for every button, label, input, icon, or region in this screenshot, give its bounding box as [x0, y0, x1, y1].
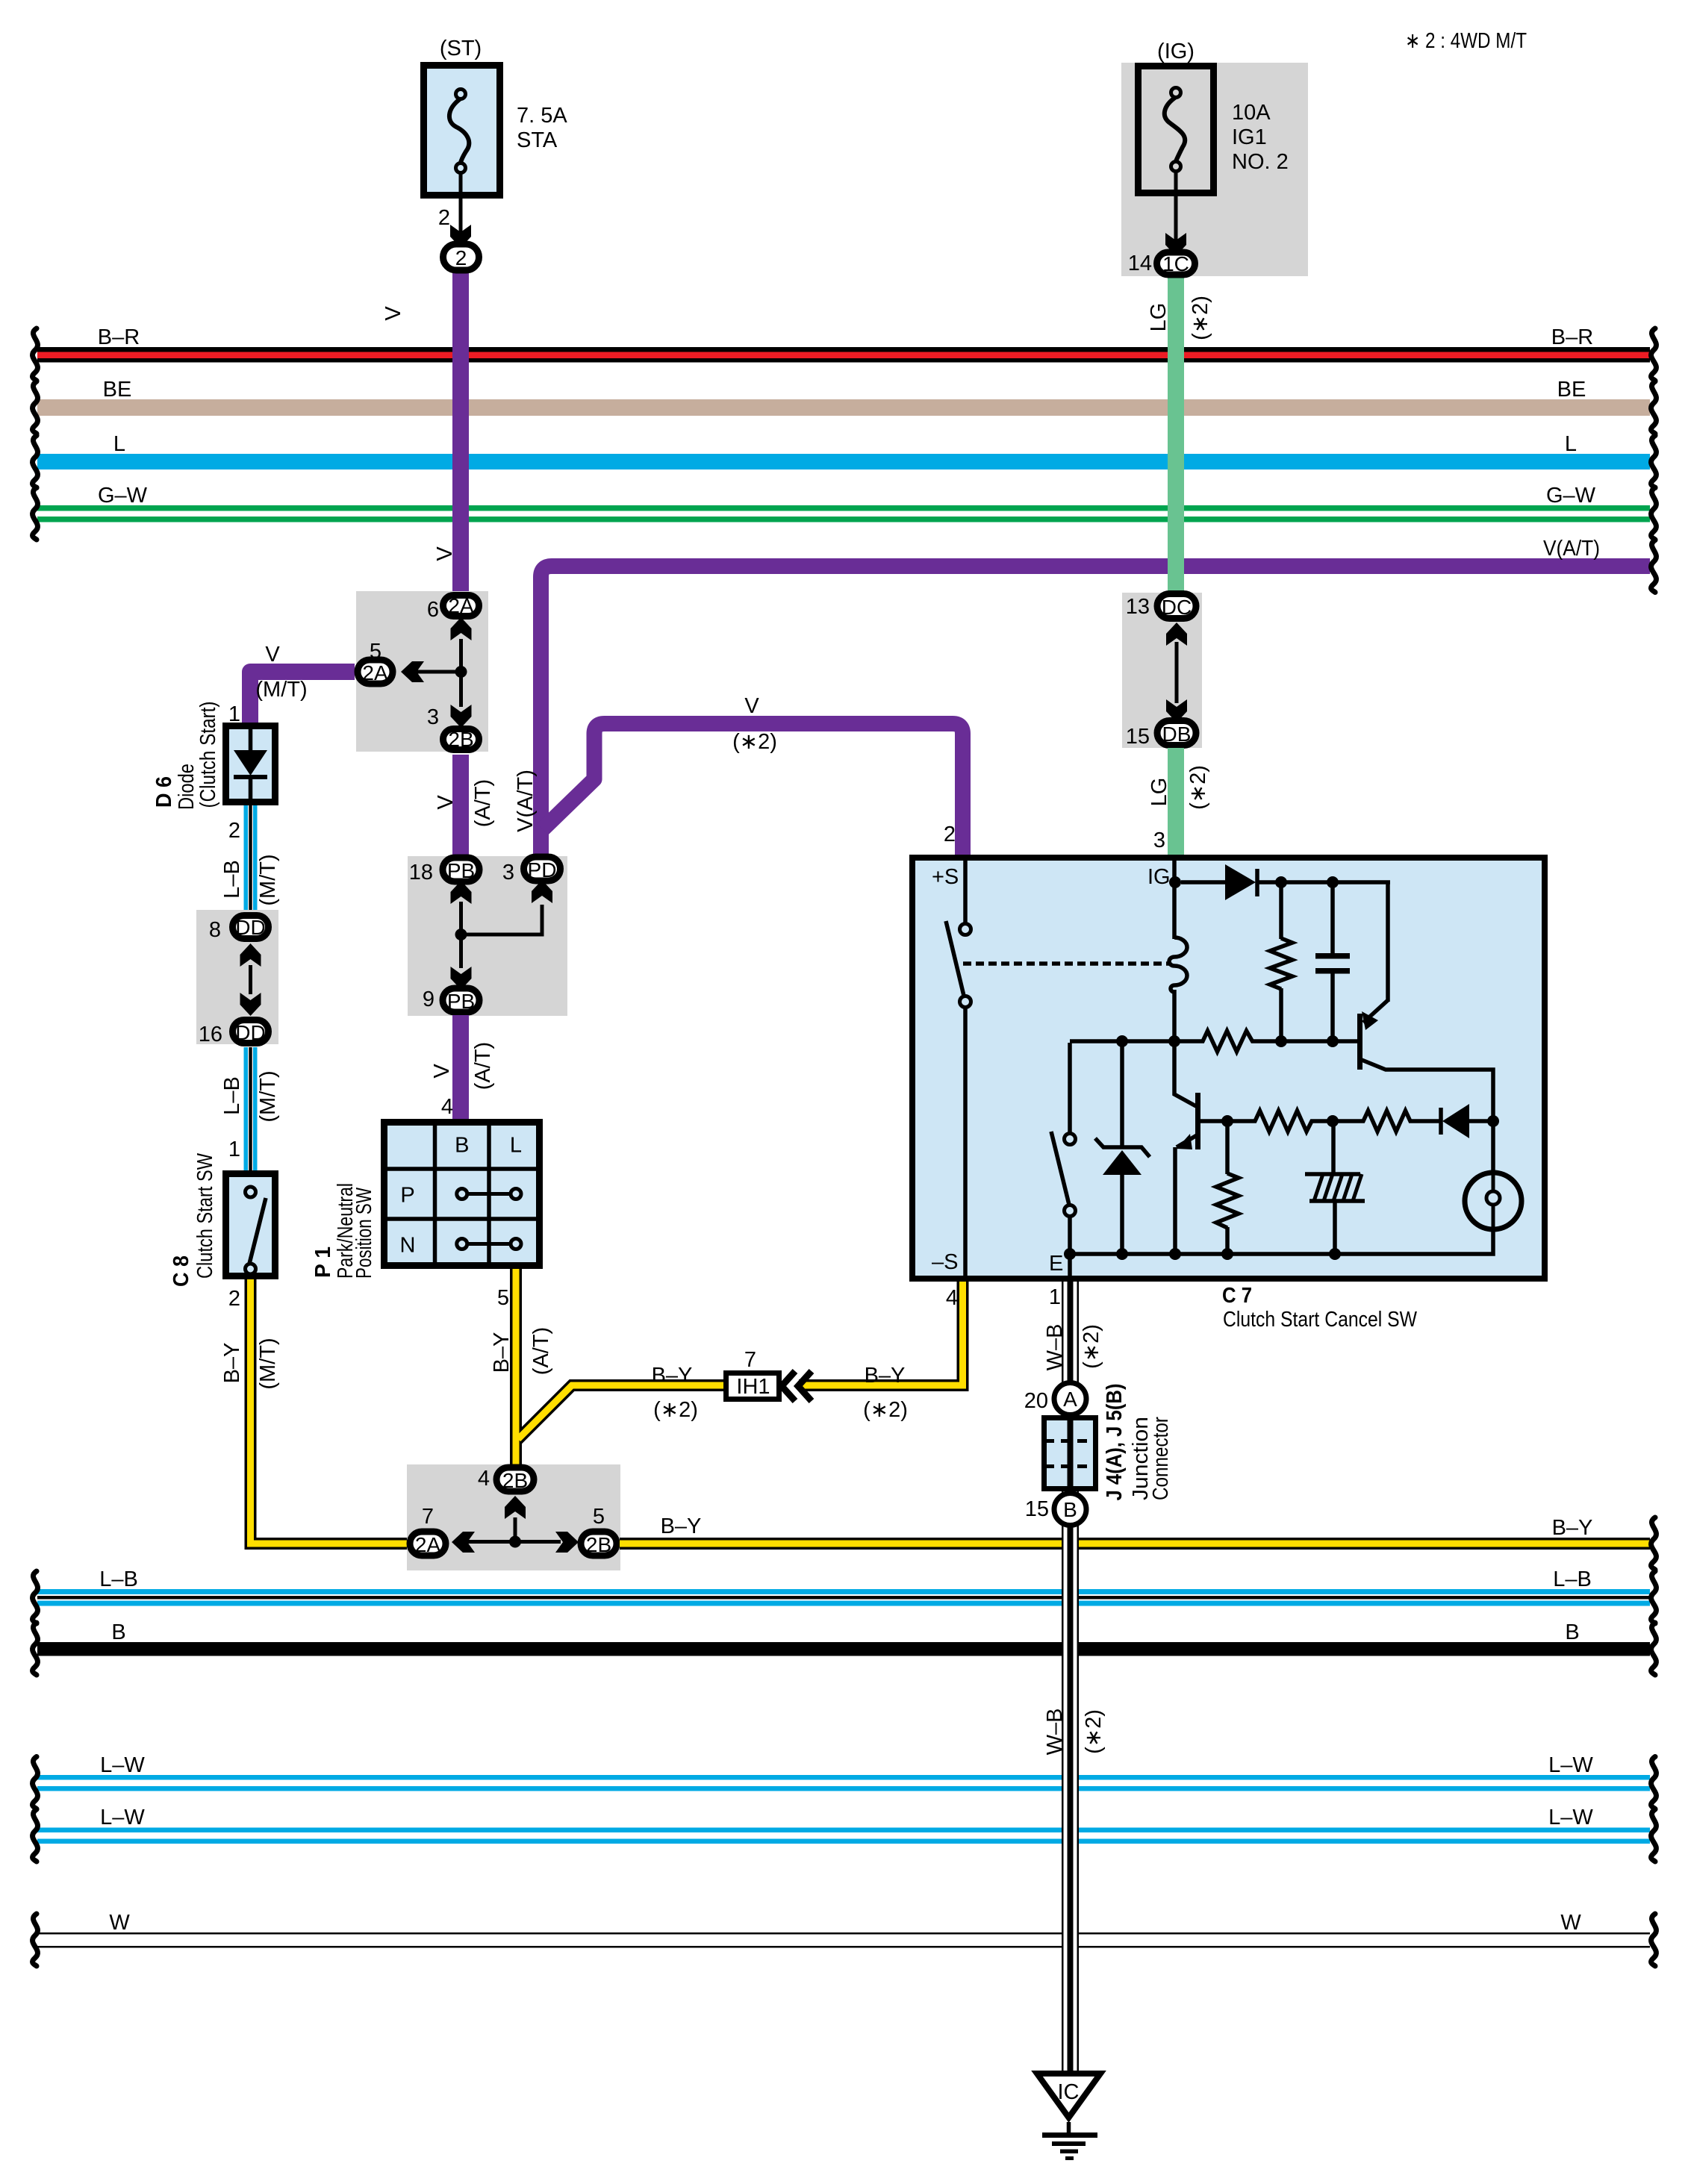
arrow up into 4 2B — [505, 1496, 526, 1519]
C7 heater element — [1305, 1121, 1365, 1255]
connector oval 18 PB — [409, 858, 479, 884]
svg-text:20: 20 — [1024, 1389, 1048, 1413]
svg-text:2: 2 — [228, 819, 240, 843]
arrow up into 6 2A — [451, 617, 472, 640]
svg-text:W: W — [109, 1911, 130, 1935]
svg-text:1: 1 — [228, 1138, 240, 1161]
bus BE — [33, 378, 1657, 434]
wire LG from IG fuse vertical — [1147, 276, 1212, 591]
C7 resistor R1 vertical — [1270, 882, 1292, 1043]
svg-text:4: 4 — [478, 1467, 490, 1491]
svg-text:4: 4 — [946, 1286, 958, 1310]
svg-text:DB: DB — [1162, 723, 1192, 746]
svg-text:NO. 2: NO. 2 — [1232, 150, 1289, 174]
svg-text:2B: 2B — [586, 1533, 611, 1556]
connector oval 3 2B — [427, 705, 479, 751]
park/neutral position switch P1 — [311, 1120, 541, 1279]
arrow down into 3 2B — [451, 705, 472, 728]
wire V between 2B and PB — [434, 755, 495, 856]
svg-text:16: 16 — [199, 1023, 222, 1046]
svg-text:2: 2 — [438, 206, 450, 230]
connector oval 8 DD — [209, 916, 269, 943]
C7 resistor R4 vertical — [1216, 1121, 1239, 1255]
C7 dashed link — [963, 961, 1170, 966]
svg-text:E: E — [1049, 1252, 1063, 1276]
bus L — [33, 432, 1657, 488]
junction line and dot bottom — [464, 1517, 561, 1548]
bus B-R — [33, 325, 1657, 381]
svg-text:IH1: IH1 — [736, 1375, 770, 1399]
wire B-Y from C7 pin4 to IH1 — [799, 1282, 963, 1422]
connector oval 5 2B — [581, 1505, 617, 1556]
svg-text:(∗2): (∗2) — [1186, 765, 1210, 810]
arrow up into 18 PB — [451, 881, 472, 904]
svg-text:2A: 2A — [362, 661, 388, 684]
svg-text:BE: BE — [103, 378, 132, 402]
svg-text:L–B: L–B — [220, 860, 244, 899]
svg-text:V: V — [265, 643, 280, 667]
wire W-B from C7 pin1 to ground — [1043, 1282, 1106, 2071]
C7 pin +S — [932, 861, 965, 924]
line between DD arrows — [249, 965, 252, 994]
C7 E line — [1049, 1228, 1493, 1279]
connector oval 5 2A — [358, 640, 393, 684]
svg-text:10A: 10A — [1232, 101, 1271, 125]
svg-text:P 1: P 1 — [311, 1247, 335, 1278]
svg-text:3: 3 — [1153, 829, 1165, 852]
connector oval 1C — [1157, 252, 1195, 275]
arrow down into 15 DB — [1166, 699, 1187, 723]
svg-text:6: 6 — [427, 598, 439, 622]
svg-text:L–B: L–B — [1553, 1567, 1592, 1591]
C7 diode at IG — [1181, 864, 1390, 1002]
wire V from ST fuse vertical — [381, 273, 469, 591]
connector oval 7 2A — [410, 1505, 446, 1556]
connector gray box bottom 2A/2B — [407, 1464, 620, 1570]
C7 transistor Q2 — [1174, 1041, 1229, 1255]
svg-text:(∗2): (∗2) — [1080, 1324, 1103, 1369]
svg-text:2A: 2A — [415, 1533, 441, 1556]
svg-text:(∗2): (∗2) — [863, 1398, 908, 1422]
C7 transistor Q1 — [1357, 1000, 1493, 1123]
svg-text:N: N — [400, 1234, 416, 1258]
svg-text:V(A/T): V(A/T) — [514, 770, 538, 832]
svg-text:2: 2 — [455, 246, 467, 269]
svg-text:IC: IC — [1058, 2080, 1080, 2104]
svg-text:W: W — [1560, 1911, 1581, 1935]
svg-text:B–R: B–R — [98, 325, 140, 349]
wire L-B from DD to C8 — [220, 1047, 280, 1170]
svg-text:L: L — [1565, 432, 1577, 456]
svg-text:B–R: B–R — [1551, 325, 1593, 349]
bus L-W upper — [33, 1753, 1657, 1809]
bus V(A/T) with corner down to PD — [541, 537, 1657, 855]
svg-text:IG1: IG1 — [1232, 125, 1267, 149]
svg-text:(IG): (IG) — [1157, 40, 1195, 63]
connector oval 16 DD — [199, 1020, 269, 1047]
svg-text:(M/T): (M/T) — [255, 678, 307, 702]
svg-text:C 7: C 7 — [1222, 1284, 1252, 1308]
svg-text:B–Y: B–Y — [220, 1343, 244, 1384]
svg-text:IG: IG — [1147, 865, 1171, 889]
C7 diode 2 — [1441, 1104, 1499, 1138]
svg-text:7: 7 — [422, 1505, 434, 1529]
svg-text:Connector: Connector — [1149, 1417, 1173, 1500]
arrow down into 16 DD — [240, 993, 261, 1016]
svg-text:18: 18 — [409, 861, 433, 884]
svg-text:∗ 2 : 4WD M/T: ∗ 2 : 4WD M/T — [1405, 29, 1527, 53]
bus L-B — [33, 1567, 1657, 1623]
wire V from 9 PB to P1 pin 4 — [430, 1015, 495, 1119]
note *2 : 4WD M/T — [1405, 29, 1527, 53]
svg-text:13: 13 — [1126, 595, 1150, 619]
connector oval 13 DC — [1126, 594, 1196, 620]
label V(A/T) rotated — [514, 770, 538, 832]
svg-text:LG: LG — [1147, 778, 1171, 807]
connector oval 4 2B — [478, 1467, 534, 1492]
svg-text:DD: DD — [235, 916, 265, 939]
bus B — [33, 1620, 1657, 1675]
svg-text:2: 2 — [944, 823, 956, 846]
svg-text:L–W: L–W — [1548, 1753, 1593, 1777]
svg-text:P: P — [400, 1184, 414, 1208]
svg-text:V: V — [433, 546, 457, 561]
svg-text:9: 9 — [423, 988, 435, 1011]
svg-text:W–B: W–B — [1043, 1709, 1067, 1756]
connector oval 3 PD — [502, 857, 561, 884]
C7 capacitor — [1315, 882, 1350, 1043]
arrow up into 13 DC — [1166, 623, 1187, 646]
wire B-Y from P1 pin5 down to 4 2B — [490, 1269, 726, 1466]
svg-text:B–Y: B–Y — [661, 1514, 702, 1538]
C7 resistor R5 — [1333, 1111, 1440, 1132]
svg-text:8: 8 — [209, 918, 221, 942]
svg-text:+S: +S — [932, 865, 959, 889]
svg-text:B–Y: B–Y — [865, 1364, 906, 1388]
line between DC/DB arrows — [1175, 642, 1179, 703]
arrow up into 3 PD — [532, 880, 552, 903]
svg-text:D 6: D 6 — [152, 776, 176, 808]
svg-text:(ST): (ST) — [440, 37, 482, 60]
svg-text:(A/T): (A/T) — [471, 779, 495, 827]
bus B-Y long wire — [620, 1514, 1656, 1570]
svg-text:(∗2): (∗2) — [653, 1398, 698, 1422]
double chevron arrows at IH1 — [782, 1371, 812, 1401]
svg-text:–S: –S — [932, 1250, 958, 1274]
svg-text:L–B: L–B — [220, 1076, 244, 1115]
connector IH1 — [726, 1348, 779, 1400]
fuse IG (10A IG1 NO.2) — [1121, 40, 1308, 276]
svg-text:15: 15 — [1126, 725, 1150, 749]
svg-text:2B: 2B — [448, 728, 473, 751]
arrow left into 5 2A — [401, 661, 424, 682]
svg-text:(M/T): (M/T) — [256, 1338, 280, 1389]
svg-text:3: 3 — [427, 705, 439, 729]
svg-text:(A/T): (A/T) — [529, 1327, 553, 1375]
svg-text:B: B — [455, 1134, 469, 1158]
svg-text:V: V — [430, 1064, 454, 1079]
svg-text:A: A — [1063, 1388, 1077, 1411]
svg-text:L–W: L–W — [1548, 1806, 1593, 1829]
wire V branch to 5 2A and down to diode D6 — [250, 643, 355, 724]
fuse ST (7.5A STA) — [424, 37, 568, 248]
svg-text:Position SW: Position SW — [352, 1188, 376, 1279]
C7 zener diode — [1095, 1041, 1150, 1255]
svg-text:B–Y: B–Y — [1552, 1516, 1593, 1540]
svg-text:5: 5 — [497, 1286, 509, 1310]
svg-text:(M/T): (M/T) — [256, 854, 280, 905]
connector oval 6 2A — [427, 594, 479, 622]
junction wiring and dot — [455, 902, 543, 968]
arrow left into 7 2A — [452, 1532, 475, 1553]
svg-text:L: L — [510, 1134, 522, 1158]
bus L-W lower — [33, 1806, 1657, 1862]
svg-text:Clutch Start Cancel SW: Clutch Start Cancel SW — [1223, 1308, 1418, 1332]
svg-text:7: 7 — [744, 1348, 756, 1372]
arrow down into 9 PB — [451, 967, 472, 990]
svg-text:(A/T): (A/T) — [471, 1042, 495, 1090]
wire B-Y from IH1 to junction — [517, 1364, 726, 1440]
C7 switch 1 — [932, 921, 971, 1276]
wire B-Y from C8 pin2 down and right to 7 2A — [220, 1279, 408, 1544]
svg-text:(Clutch Start): (Clutch Start) — [196, 702, 220, 808]
clutch start switch C8 — [169, 1152, 275, 1287]
wire L-B from D6 to DD — [220, 805, 280, 912]
svg-text:G–W: G–W — [98, 484, 148, 508]
bus W — [33, 1911, 1657, 1966]
svg-text:(∗2): (∗2) — [732, 730, 777, 754]
svg-text:2B: 2B — [502, 1469, 528, 1492]
svg-text:1: 1 — [1049, 1285, 1061, 1309]
arrow up into 8 DD — [240, 943, 261, 967]
clutch start cancel SW C7 box — [912, 858, 1545, 1332]
svg-text:14: 14 — [1128, 252, 1152, 275]
C7 pin labels — [946, 829, 1165, 1310]
svg-text:15: 15 — [1025, 1497, 1049, 1521]
C7 resistor R3 — [1221, 1111, 1339, 1132]
svg-text:L–B: L–B — [99, 1567, 138, 1591]
junction connector J4(A), J5(B) — [1024, 1383, 1173, 1526]
C7 relay coil — [1169, 937, 1187, 1043]
connector oval 9 PB — [423, 988, 479, 1013]
svg-text:B: B — [1565, 1620, 1579, 1644]
svg-text:C 8: C 8 — [169, 1255, 193, 1287]
svg-text:B–Y: B–Y — [490, 1332, 514, 1373]
svg-text:V: V — [381, 306, 405, 321]
bus G-W — [33, 484, 1657, 540]
svg-text:2: 2 — [228, 1287, 240, 1311]
svg-text:DC: DC — [1162, 596, 1192, 619]
svg-text:J 4(A), J 5(B): J 4(A), J 5(B) — [1103, 1384, 1127, 1501]
arrow right into 5 2B — [555, 1532, 579, 1553]
svg-text:L: L — [113, 432, 125, 456]
svg-text:4: 4 — [441, 1095, 453, 1119]
svg-text:(∗2): (∗2) — [1082, 1709, 1106, 1754]
svg-text:W–B: W–B — [1043, 1324, 1067, 1371]
diode D6 (Clutch Start) — [152, 702, 275, 811]
svg-text:(∗2): (∗2) — [1189, 296, 1212, 340]
svg-text:G–W: G–W — [1546, 484, 1596, 508]
connector gray box DD — [196, 910, 278, 1044]
connector gray box DC/DB — [1122, 593, 1202, 748]
svg-text:2A: 2A — [448, 594, 474, 617]
svg-text:(M/T): (M/T) — [256, 1070, 280, 1122]
svg-text:DD: DD — [235, 1021, 265, 1044]
svg-text:L–W: L–W — [100, 1753, 145, 1777]
svg-text:LG: LG — [1147, 303, 1171, 332]
svg-text:V: V — [744, 694, 759, 718]
connector gray box PB/PD — [408, 856, 567, 1016]
svg-text:V: V — [434, 795, 458, 810]
svg-text:PD: PD — [528, 858, 557, 882]
C7 switch 2 — [1051, 1043, 1076, 1255]
svg-text:B: B — [111, 1620, 125, 1644]
svg-text:7. 5A: 7. 5A — [517, 104, 567, 128]
wire LG from DB to C7 pin 3 — [1147, 748, 1210, 855]
svg-text:PB: PB — [447, 859, 475, 882]
svg-text:STA: STA — [517, 128, 558, 152]
connector oval 15 DB — [1126, 721, 1196, 749]
ground IC — [1037, 2074, 1100, 2160]
wire V (*2) to C7 +S — [543, 694, 963, 855]
svg-text:5: 5 — [593, 1505, 605, 1529]
svg-text:B: B — [1063, 1498, 1077, 1521]
svg-text:Diode: Diode — [175, 764, 199, 810]
svg-text:1C: 1C — [1162, 252, 1189, 275]
svg-text:PB: PB — [447, 990, 475, 1013]
svg-text:Clutch Start SW: Clutch Start SW — [193, 1152, 217, 1279]
connector oval 2 (below ST fuse) — [443, 244, 479, 270]
C7 base line row — [1070, 1031, 1357, 1052]
C7 pin IG — [1147, 861, 1181, 939]
junction line and dot — [407, 639, 467, 707]
svg-text:L–W: L–W — [100, 1806, 145, 1829]
svg-text:BE: BE — [1557, 378, 1586, 402]
svg-text:3: 3 — [502, 861, 514, 884]
svg-text:V(A/T): V(A/T) — [1543, 537, 1600, 561]
connector gray box 2A/2B — [356, 591, 488, 752]
C7 lamp — [1465, 1120, 1522, 1229]
